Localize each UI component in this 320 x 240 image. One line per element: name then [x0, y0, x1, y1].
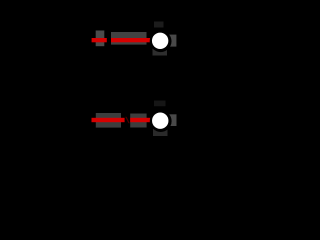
top slider: thumb white knob: [152, 33, 168, 49]
bottom slider: thumb outer ring: [150, 110, 172, 132]
bottom slider: red track segment 2: [130, 118, 150, 122]
bottom slider: thumb white knob: [152, 113, 168, 129]
bottom slider: track band (right): [130, 114, 146, 128]
top slider: faint handle square above thumb: [154, 22, 164, 28]
bottom slider: red track segment 1: [92, 118, 125, 122]
top slider: handle square right of thumb: [169, 35, 177, 47]
bottom slider: track band (left): [96, 113, 121, 128]
top slider: red track segment 1: [92, 38, 107, 42]
top slider: track band: [111, 32, 147, 45]
bottom slider: handle square below thumb: [153, 124, 168, 136]
top slider: red track segment 2: [111, 38, 150, 42]
top slider: handle square on track (left): [96, 31, 105, 47]
bottom slider: red gap diagonal mark: [125, 117, 130, 123]
top slider: handle square below thumb: [153, 44, 168, 56]
bottom slider: handle square right of thumb: [169, 114, 177, 126]
bottom slider: faint handle square above thumb: [154, 101, 166, 107]
top slider: thumb outer ring: [150, 30, 172, 52]
